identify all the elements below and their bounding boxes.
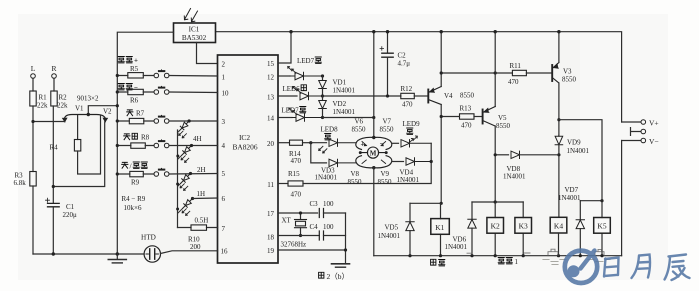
svg-text:1N4001: 1N4001 [503,173,526,181]
node bridge rail junction [372,30,375,33]
svg-text:R8: R8 [141,134,150,142]
bottom ground bus [33,253,144,255]
svg-text:R11: R11 [510,62,522,70]
diode VD7 1N4001 flyback [579,201,581,220]
watermark char ri [604,258,619,277]
svg-text:C2: C2 [398,52,407,60]
resistor R6 [128,89,144,94]
IC2 U2 BA8206 box [218,55,279,263]
node XT top junction [299,211,302,214]
node C2 bottom junction [386,94,389,97]
terminal V+ [622,121,641,123]
svg-text:2H: 2H [197,166,206,174]
svg-text:6.8k: 6.8k [14,179,27,187]
wire pin13 row to C2 and R12 [323,95,401,97]
node 4H anode on pin3 wire [188,119,191,122]
diode VD2 1N4001 [322,96,324,100]
svg-text:470: 470 [291,157,302,165]
node VD8 left junction [494,153,497,156]
svg-text:V−: V− [649,137,659,146]
wire row4 timer [117,145,154,147]
watermark logo inner dot [568,265,580,277]
svg-text:R12: R12 [401,85,413,93]
svg-text:K2: K2 [491,222,500,231]
node V1 base junction [31,120,34,123]
watermark logo ring [565,251,690,284]
svg-text:16: 16 [221,248,229,256]
svg-text:8550: 8550 [348,178,363,186]
label on/select (kai/xuanze) [122,162,148,171]
svg-text:R7: R7 [136,110,145,118]
svg-text:470: 470 [402,101,413,109]
switch S5 [154,168,169,176]
wire row1 volume+ [117,75,154,77]
switch S2 [154,86,169,94]
node VD4 right junction [430,160,433,163]
svg-text:18: 18 [267,234,275,242]
LED7b row pin14 [278,117,292,119]
IR arrows into IC1 [184,9,197,22]
wire L line R1 to R3 [32,106,34,172]
wire R line R2 to C1 [52,106,54,203]
node row3 bus junction [116,119,119,122]
switch S3 [154,115,169,123]
label volume- [118,84,138,93]
label LED7 green (top) [297,57,321,65]
wire VD7 K5 top link [580,200,602,202]
svg-text:M: M [370,150,377,158]
svg-text:8550: 8550 [562,76,577,84]
svg-text:100: 100 [323,223,334,231]
relay bottom bus [374,255,622,257]
node bus tap junction [116,104,119,107]
node 0.5H anode on pin6 wire [191,197,194,200]
svg-text:1N4001: 1N4001 [445,243,468,251]
svg-text:R4 − R9: R4 − R9 [122,195,146,203]
svg-text:8550: 8550 [380,126,395,134]
node K2 feed junction [494,200,497,203]
svg-text:V2: V2 [103,108,112,116]
svg-text:C3: C3 [310,200,319,208]
svg-text:9013×2: 9013×2 [77,95,99,103]
svg-text:6: 6 [222,195,226,203]
svg-text:8550: 8550 [460,92,475,100]
svg-text:2: 2 [222,61,226,69]
svg-text:19: 19 [267,247,275,255]
svg-text:8550: 8550 [496,122,511,130]
svg-text:R13: R13 [460,105,472,113]
svg-text:−: − [134,84,138,92]
node VD1 top junction [321,74,324,77]
svg-text:IC1: IC1 [189,26,200,34]
diode VD5 1N4001 flyback [409,203,411,221]
svg-text:VD2: VD2 [333,100,347,108]
node row4 bus junction [116,144,119,147]
relay K1 [440,203,442,255]
wire C1 to bottom bus [52,207,54,254]
wire pin7 row with R10 [178,227,218,229]
wire top supply rail [216,32,622,122]
wire R13 to V5 base [474,116,482,118]
terminal center tap [631,128,641,136]
svg-text:+: + [361,139,365,148]
svg-text:R2: R2 [59,94,68,102]
svg-text:XT: XT [282,217,292,225]
resistor R8 [131,143,146,148]
node V3 output junction [557,118,560,121]
wire V4 line to R13 [441,116,459,118]
diode VD9 1N4001 [555,136,563,145]
wire V1 trunk to R4 [77,116,79,140]
label LED7 green (second) [282,107,306,115]
svg-text:K3: K3 [519,222,528,231]
svg-text:R: R [51,64,56,73]
wire IC2 pin 15 to rail [278,32,291,63]
watermark logo slash [581,251,595,269]
svg-text:LED8: LED8 [321,126,339,134]
node XT bottom junction [299,234,302,237]
svg-text:2（b）: 2（b） [327,272,350,281]
motor M [360,147,386,158]
LED7a row pin12 [278,75,290,77]
LED6 row pin13 [278,95,297,97]
resistor R3 [30,172,36,187]
node bridge top junction [372,136,375,139]
node pin15 rail junction [289,30,292,33]
node K1 feed junction [440,202,443,205]
node motor stub left [359,151,362,154]
label audio source 1 (yinyuan1) [498,258,518,267]
capacitor C1 [46,198,60,207]
svg-text:V4: V4 [444,92,453,100]
svg-text:17: 17 [267,210,275,218]
svg-text:1N4001: 1N4001 [558,194,581,202]
node switch-bus ground junction [116,252,119,255]
wire R3 to bottom bus [32,186,34,254]
node row1 bus junction [116,74,119,77]
connector marks under bus [467,249,604,256]
wire IC1 bottom to IC2 pin 2 [197,43,218,64]
resistor R4 [74,140,80,152]
capacitor C2 electrolytic [387,32,389,53]
svg-text:12: 12 [267,74,275,82]
svg-text:5: 5 [222,170,226,178]
node R14 output junction [309,141,312,144]
svg-text:22k: 22k [57,102,68,110]
terminal V- [622,140,641,142]
node LED cathode joins [176,155,179,158]
svg-text:200: 200 [190,243,201,251]
svg-text:IC2: IC2 [239,133,250,142]
diode VD4 1N4001 [392,161,404,163]
wire R14 to junction [303,142,311,144]
wire HTD to IC2 pin 16 [161,251,218,254]
wire K2 K3 top link [472,201,523,203]
svg-text:100: 100 [323,200,334,208]
svg-text:R4: R4 [50,144,59,152]
svg-text:R5: R5 [130,65,139,73]
svg-text:3: 3 [222,118,226,126]
node V4 rail junction [440,30,443,33]
relay K5 [601,201,603,256]
wire VD5 K1 top link [410,202,441,204]
svg-text:1N4001: 1N4001 [378,232,401,240]
wire bridge supply vertical [373,32,375,138]
LED timer indicator 4H [179,121,189,138]
wire row5 on/select [117,173,154,175]
node pin19 junction [344,248,347,251]
label LED6 red [283,85,307,93]
svg-text:VD7: VD7 [565,186,579,194]
svg-text:V3: V3 [563,68,572,76]
wire pin6 stub [193,197,218,200]
label volume+ [118,57,138,65]
wire rail to V5 collector [494,32,496,107]
transistor V4 8550 [428,87,441,105]
wire crystal right vertical to ground [345,213,347,263]
transistor V5 8550 [483,107,496,127]
svg-text:10: 10 [222,90,230,98]
motor H-bridge V6 V7 V8 V9 [356,137,392,168]
wire V5 emitter down to K2 group [494,126,496,202]
label figure 2b [319,272,349,281]
label timer (dingshi) R8 [124,133,150,141]
svg-text:470: 470 [508,78,519,86]
node pair centre junction [87,113,90,116]
svg-text:V5: V5 [498,114,507,122]
wire switch S4 to IC2 pin 4 [169,145,218,147]
svg-text:VD9: VD9 [567,139,581,147]
wire R11 feed line [441,72,512,74]
wire rail to V3 collector [558,32,560,63]
wire R15 long run to right vertical [303,143,431,183]
resistor R14 [290,140,303,145]
wire row2 volume- [117,91,154,93]
svg-text:1N4001: 1N4001 [333,87,356,95]
wire bridge bottom to relay bus [373,168,375,256]
wire switch S1 to IC2 pin 1 [169,75,218,78]
wire R11 to V3 base [526,72,551,74]
LED timer indicator 1H [180,174,190,191]
svg-text:C1: C1 [66,203,75,211]
node motor stub right [385,151,388,154]
svg-text:V8: V8 [351,170,360,178]
relay K4 [550,217,567,233]
svg-text:32768Hz: 32768Hz [281,241,307,249]
relay K3 [522,202,524,256]
label off (guan) R7 [127,110,145,118]
svg-text:K1: K1 [435,223,444,232]
switch S1 [154,70,169,78]
svg-text:1: 1 [515,258,519,266]
watermark char chen [665,255,690,281]
resistor R7 [129,118,144,123]
diode VD6 1N4001 flyback [471,202,473,219]
wire IC2 pin11 to R15 [278,183,288,185]
wire LED cathode common vertical [177,130,179,228]
wire rail to V4 collector [440,32,442,87]
svg-text:BA8206: BA8206 [232,143,257,152]
svg-text:1H: 1H [197,190,206,198]
node R11 line left junction [440,71,443,74]
svg-text:R15: R15 [288,170,300,178]
svg-text:7: 7 [222,225,226,233]
IC1 U1 BA5302 box [174,23,216,43]
node R line loop junction [52,185,55,188]
svg-text:V6: V6 [355,118,364,126]
svg-text:LED7: LED7 [297,57,315,65]
node row2 bus junction [116,90,119,93]
svg-text:−: − [380,139,384,148]
wire IC2 pin19 [278,249,346,251]
svg-text:10k×6: 10k×6 [124,204,142,212]
label amplifier (gongfang) [431,259,445,266]
svg-text:0.5H: 0.5H [195,217,209,225]
watermark char yue [632,255,651,279]
ground symbol left [116,254,118,259]
node V3 rail junction [557,30,560,33]
svg-text:K4: K4 [554,222,563,231]
wire R input line [53,78,55,91]
wire V3 emitter down [558,83,560,135]
svg-text:V1: V1 [75,105,84,113]
resistor R1 [30,91,36,106]
svg-text:22k: 22k [37,102,48,110]
wire R12 to V4 base [414,95,428,97]
svg-text:R1: R1 [39,94,48,102]
node bridge bottom junction [372,166,375,169]
svg-text:8550: 8550 [378,178,393,186]
diode VD8 1N4001 [495,154,508,156]
svg-text:R9: R9 [131,179,140,187]
node 2H anode on pin4 wire [190,144,193,147]
svg-text:1: 1 [222,74,226,82]
svg-text:K5: K5 [597,222,606,231]
svg-text:LED9: LED9 [403,120,421,128]
wire R line loop to V2 base [53,122,104,187]
wire L input line [32,78,34,91]
wire pin14 row to bridge vertical [323,117,374,119]
node V5 rail junction [494,30,497,33]
svg-text:1N4001: 1N4001 [397,176,420,184]
LED timer indicator 0.5H [182,199,192,216]
svg-text:1N4001: 1N4001 [315,174,338,182]
svg-text:BA5302: BA5302 [182,34,207,42]
node 1H anode on pin5 wire [189,172,192,175]
svg-text:V7: V7 [383,118,392,126]
svg-text:15: 15 [267,60,275,68]
wire VD3 branch down [311,143,327,163]
switch S4 [154,140,169,148]
wire V3 output to K5 drop [559,120,602,201]
svg-text:VD1: VD1 [333,79,347,87]
svg-text:+: + [134,57,138,65]
wire V1 base to L line [33,121,65,123]
wire switch S3 to IC2 pin 3 [169,120,218,122]
node row5 bus junction [116,172,119,175]
svg-text:4: 4 [222,142,226,150]
svg-text:14: 14 [267,115,275,123]
wire V4 emitter down to K1 [440,105,442,204]
resistor R2 [51,91,57,106]
svg-text:LED7: LED7 [282,107,300,115]
wire switch S2 to IC2 pin 10 [169,91,218,94]
node VD1 VD2 junction [321,94,324,97]
svg-text:VD5: VD5 [385,224,399,232]
svg-text:4H: 4H [193,135,202,143]
crystal XT 32768Hz [278,212,318,214]
svg-text:8550: 8550 [352,126,367,134]
resistor R10 [191,225,207,230]
LED timer indicator 2H [181,146,191,163]
svg-text:1N4001: 1N4001 [567,147,590,155]
node VD9 bottom junction [557,153,560,156]
resistor R9 [130,171,144,176]
diode VD1 1N4001 [322,76,324,80]
svg-text:11: 11 [267,181,274,189]
node VD2 bottom junction [321,116,324,119]
svg-text:C4: C4 [310,223,319,231]
svg-text:4.7μ: 4.7μ [398,60,411,68]
wire switch S5 to IC2 pin 5 [169,173,218,176]
svg-text:V+: V+ [649,119,659,128]
svg-text:R6: R6 [130,97,139,105]
node R13 tap junction [440,115,443,118]
svg-text:470: 470 [461,122,472,130]
node C1 bus junction [52,252,55,255]
node K5 feed junction [600,199,603,202]
svg-text:L: L [31,64,36,73]
wire R4 bottom loop to V2 trunk [78,116,101,175]
node pin14 bridge junction [372,116,375,119]
svg-text:20: 20 [267,140,275,148]
svg-text:HTD: HTD [141,234,156,242]
wire IC1 left to switch common bus [117,32,173,254]
node C2 rail junction [386,30,389,33]
node R11 line rail-drop junction [494,71,497,74]
ground symbol crystal [332,264,350,267]
svg-text:470: 470 [291,191,302,199]
wire IC2 pin20 to R14 [278,142,290,144]
node bus junctions [408,254,603,257]
wire pair centre tap to switch bus [88,106,117,115]
relay K2 [494,202,496,256]
svg-text:1N4001: 1N4001 [333,108,356,116]
transistor V3 8550 [552,63,559,84]
wire row3 off [117,120,154,122]
transistor pair V1 V2 9013 [63,115,108,122]
svg-text:220μ: 220μ [63,211,78,219]
diode VD3 1N4001 [329,159,356,166]
wire right bus V- side down to bottom bus [621,141,623,256]
svg-text:V9: V9 [381,170,390,178]
svg-text:13: 13 [267,94,275,102]
